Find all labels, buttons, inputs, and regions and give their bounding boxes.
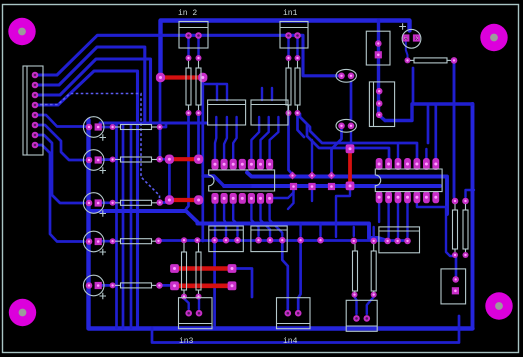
mounting hole top-right (480, 24, 507, 51)
wire mid vertical 2 (122, 123, 125, 328)
transistor Q2 pads (376, 88, 383, 95)
wire T2 pad2 to U1 pin (261, 117, 269, 160)
capacitor C3 outline (83, 193, 104, 214)
svg-text:K: K (415, 36, 418, 42)
wire U1 pin14 to via (270, 190, 294, 198)
wire red mid bottom to run (336, 186, 350, 237)
wire connector pin8 to C4 (35, 145, 84, 242)
wire U2 top fan 2 (307, 125, 389, 160)
resistor R14 outline (371, 251, 376, 291)
node red bottom bar2 pads (170, 281, 179, 290)
capacitor C5 outline (83, 275, 104, 296)
via row squares (290, 183, 297, 190)
wire pad row y240 (158, 239, 407, 242)
wire oval C7 right pad down to red pad (350, 132, 352, 145)
wire U2 top fan 1 (298, 114, 418, 160)
resistor R4 outline (196, 68, 201, 105)
wire b2 pad to in4 (282, 244, 288, 309)
wire oval C2 to red via (332, 130, 342, 172)
node R15 R16 bottom pads (452, 252, 458, 258)
transistor Q1 pads (375, 40, 382, 47)
connector IN3 pins (185, 310, 192, 317)
wire T2 pad1 to U1 pin (251, 117, 259, 160)
wire airwire from connector to row3 pad (40, 94, 160, 202)
wire in4 pin2 up (298, 244, 300, 309)
wire C3 pad to via (98, 201, 113, 204)
wire via up to bus 1 (299, 224, 301, 236)
LED D1 outline (402, 29, 421, 48)
via C4 row (110, 238, 116, 244)
via C5 row (110, 282, 116, 288)
wire R5 bottom to via (289, 113, 293, 175)
node red top bar left pad (156, 73, 165, 82)
connector SV1 outline (23, 66, 43, 155)
wire U1 pin8 down (214, 202, 216, 236)
resistor R15 outline (453, 210, 458, 249)
wire U2 pin down 1 (387, 201, 389, 237)
node R4 bottom pad (196, 110, 202, 116)
wire vertical from top-red right pad (201, 82, 204, 241)
capacitor C2 pads (86, 157, 93, 164)
svg-text:in3: in3 (179, 337, 194, 346)
transistor T4 pads (255, 237, 262, 244)
wire in2 pin1 lead (187, 36, 189, 58)
transistor T5 outline (379, 227, 420, 253)
capacitor C6 oval outline (336, 69, 356, 82)
node R9 right pad (156, 199, 163, 206)
wire U2 pin14 up (434, 105, 437, 160)
node R6 top pad (295, 55, 301, 61)
polarized cap C8 outline (441, 269, 466, 304)
wire branch T1 stub (216, 84, 218, 100)
transistor T3 pads (211, 237, 218, 244)
wire bottom second bus (152, 316, 459, 343)
resistor R13 outline (353, 251, 358, 291)
svg-text:in 2: in 2 (178, 9, 197, 18)
wire mid vertical 3 (130, 123, 133, 328)
capacitor C1 outline (83, 117, 104, 138)
IC U1 outline (209, 170, 275, 191)
wire right thick vertical (471, 104, 475, 328)
wire via up to bus 2 (319, 224, 321, 236)
wire top right horizontal (385, 104, 473, 121)
node red bottom bar1 pads (170, 264, 179, 273)
wire connector pin7 to C3 (35, 135, 84, 203)
resistor R9 outline (121, 200, 152, 205)
wire red pads column link (168, 164, 171, 196)
connector IN4 outline (277, 298, 311, 329)
wire ground bus left thick (89, 120, 473, 329)
wire T1 pad2 to U1 pin (224, 117, 227, 160)
wire T1 pad1 to U1 pin (215, 117, 216, 160)
wire in2 pin2 lead (197, 36, 199, 58)
svg-text:in1: in1 (283, 9, 298, 18)
node R17 R18 top pads (181, 237, 187, 243)
node R8 right pad (156, 156, 163, 163)
node R10 right pad (155, 238, 162, 245)
wire in1 pin2 lead (296, 36, 298, 58)
node R12 left pad (405, 57, 411, 63)
resistor R11 outline (121, 283, 152, 288)
node R6 bottom pad (295, 110, 301, 116)
wire connector pin5 to C1 (35, 115, 85, 127)
wire fan riser (427, 104, 430, 143)
transistor T4 outline (251, 226, 287, 252)
mounting hole top-left (8, 18, 35, 45)
wire red row2 bar (173, 157, 196, 161)
wire C4 pad to via (98, 240, 113, 243)
node R13 R14 bottom pads (352, 292, 358, 298)
node R5 top pad (286, 55, 292, 61)
via C1 row (110, 124, 116, 130)
wire U2 fan stub 1 (397, 144, 399, 160)
IC U2 top pins (376, 158, 383, 170)
node red row3 pads (165, 195, 174, 204)
node red mid top pad (346, 144, 355, 153)
node R3 top pad (186, 55, 192, 61)
unrouted airwire (dashed) (40, 94, 160, 202)
wire via feed (311, 140, 313, 171)
node R5 bottom pad (286, 110, 292, 116)
wire red row3 bar (173, 198, 196, 202)
wire Q box vertical feed (379, 21, 386, 121)
mounting hole bottom-left (9, 299, 36, 326)
IC U2 outline (375, 169, 442, 192)
wire U2 right pin to bottom right box (417, 201, 456, 276)
wire U2 pin1 to bus (378, 201, 380, 222)
wire red bar1 right continuation (236, 269, 252, 298)
node R3 bottom pad (186, 110, 192, 116)
wire R14 top to bus (373, 227, 375, 236)
wire red mid vertical (348, 153, 352, 183)
wire R6 bottom to via (298, 113, 305, 137)
wire b1 pad down to bus (213, 244, 216, 326)
polarized cap C8 pads (452, 276, 459, 283)
resistor R12 outline (414, 58, 447, 63)
via C3 row (110, 200, 116, 206)
wire R3 bottom to mid line (186, 113, 189, 209)
capacitor C2 outline (83, 150, 104, 171)
wire horizontal mid-left (100, 122, 207, 125)
wire thick mid run A (247, 173, 447, 215)
wire U1 internal zigzag (203, 176, 250, 186)
connector IN3 outline (179, 298, 213, 329)
wire C2 pad to via (98, 158, 113, 161)
via row diamonds (289, 172, 297, 180)
capacitor C1 pads (86, 124, 93, 131)
node R12 right pad (451, 57, 458, 64)
wire R12 pad to right bus (412, 68, 415, 104)
node R4 top pad (196, 55, 202, 61)
transistor T3 outline (209, 226, 244, 252)
wire vertical from top-red left pad down to row2 pad (159, 82, 162, 156)
capacitor C5 pads (86, 282, 93, 289)
node R11 right pad (156, 282, 163, 289)
wire branch T2 stub 1 (261, 88, 263, 100)
transistor T1 outline (208, 100, 246, 125)
wire U2 pin down 2 (397, 201, 399, 237)
wire ground mid bus thick (90, 211, 388, 241)
wire C5 row into red bar pad (159, 284, 171, 287)
node R7 right pad (157, 124, 163, 130)
svg-text:in4: in4 (283, 337, 298, 346)
wire R row2 link (160, 158, 166, 161)
IC U1 top pins (211, 159, 218, 170)
connector X3 pins (353, 315, 360, 322)
wire oval C1 to oval C2 (350, 82, 353, 120)
transistor T5 pads (384, 238, 391, 245)
wire via square stub 2 (311, 190, 313, 201)
capacitor C7 oval pads (338, 123, 345, 130)
transistor T2 outline (251, 100, 288, 125)
LED D1 pin labels (404, 36, 418, 42)
transistor Q2 outline (369, 82, 394, 127)
capacitor C6 oval pads (338, 73, 345, 80)
resistor R16 outline (463, 210, 468, 249)
LED D1 pads (402, 34, 409, 41)
wire branch T2 stub 2 (271, 88, 273, 100)
wire via square stub 1 (288, 190, 294, 209)
wire box3 pin2 up (367, 297, 374, 314)
wire C1 pad to via (98, 126, 113, 129)
resistor R6 outline (295, 68, 300, 105)
wire red bottom bar 1 (178, 266, 229, 271)
capacitor C4 pads (86, 238, 93, 245)
wire red bottom bar 2 (178, 283, 229, 288)
wire U1 pin9 down (224, 202, 226, 236)
mounting hole bottom-right (485, 292, 512, 319)
connector X3 outline (346, 300, 377, 331)
connector IN2 pins (185, 32, 192, 39)
wire top bus from pad to LED (161, 21, 410, 75)
wire U1 pin12 down (261, 202, 271, 236)
resistor R17 outline (182, 252, 187, 290)
wire fan1 connector to oval C via top run (35, 35, 338, 76)
wire connector pin6 to C2 (35, 125, 84, 160)
connector IN2 outline (179, 22, 208, 49)
node red row2 pads (165, 155, 174, 164)
node R17 R18 bottom pads (181, 294, 187, 300)
wire bottom right box pad up (455, 257, 457, 276)
resistor R18 outline (196, 252, 201, 290)
resistor R5 outline (286, 68, 291, 105)
wire box3 pin1 up (355, 297, 357, 314)
wire R row3 link (160, 201, 170, 203)
node R13 R14 top pads (351, 238, 358, 245)
resistor R3 outline (186, 68, 191, 105)
wire right R16 top jog (466, 190, 475, 197)
wire in3 pin2 up (197, 297, 200, 309)
node red top bar right pad (198, 73, 207, 82)
wire thick mid run B (224, 184, 440, 188)
via row y240 pads (297, 237, 304, 244)
wire red top bar (164, 75, 199, 79)
node red mid bottom pad (346, 182, 355, 191)
wire mid verticals bundle (115, 123, 118, 328)
connector IN1 outline (280, 22, 308, 49)
wire U1 pin10 down (233, 202, 237, 236)
capacitor C4 outline (83, 231, 104, 252)
svg-text:A: A (404, 36, 407, 42)
wire T1 pad3 to U1 pin (233, 117, 236, 160)
connector IN1 pins (285, 32, 292, 39)
resistor R8 outline (121, 157, 152, 162)
wire fan2 (35, 47, 145, 123)
capacitor C3 pads (86, 200, 93, 207)
wire T2 pad3 to U1 pin (270, 117, 279, 160)
transistor Q1 outline (366, 31, 390, 65)
resistor R7 outline (121, 125, 152, 130)
resistor R10 outline (121, 239, 152, 244)
connector IN4 pins (285, 310, 292, 317)
IC U1 bottom pins (211, 193, 218, 204)
wire fan3 (35, 59, 151, 123)
wire right diode resistor down (453, 64, 456, 197)
wire LED anode lead (406, 42, 408, 57)
wire U2 pin down 3 (406, 201, 408, 237)
wire U2 fan stub 2 (425, 149, 427, 160)
via C2 row (110, 157, 116, 163)
wire in3 pin1 up (184, 299, 189, 310)
wire in1 pin1 lead (287, 36, 289, 58)
wire R4 bottom to red pad (197, 113, 200, 154)
IC U2 bottom pins (376, 191, 383, 203)
wire R13 top to bus (353, 227, 355, 236)
wire C1 row to mid (160, 123, 166, 127)
node R15 R16 top pads (452, 198, 459, 205)
wire U1 pin13 down (270, 202, 283, 236)
wire branch to T1 pads (203, 84, 227, 100)
wire U1 pin11 down (251, 202, 258, 236)
wire C5 pad to via (98, 284, 113, 287)
connector SV1 pins 1-8 (32, 72, 39, 79)
wire fan4 (35, 71, 138, 328)
capacitor C7 oval outline (336, 119, 356, 132)
